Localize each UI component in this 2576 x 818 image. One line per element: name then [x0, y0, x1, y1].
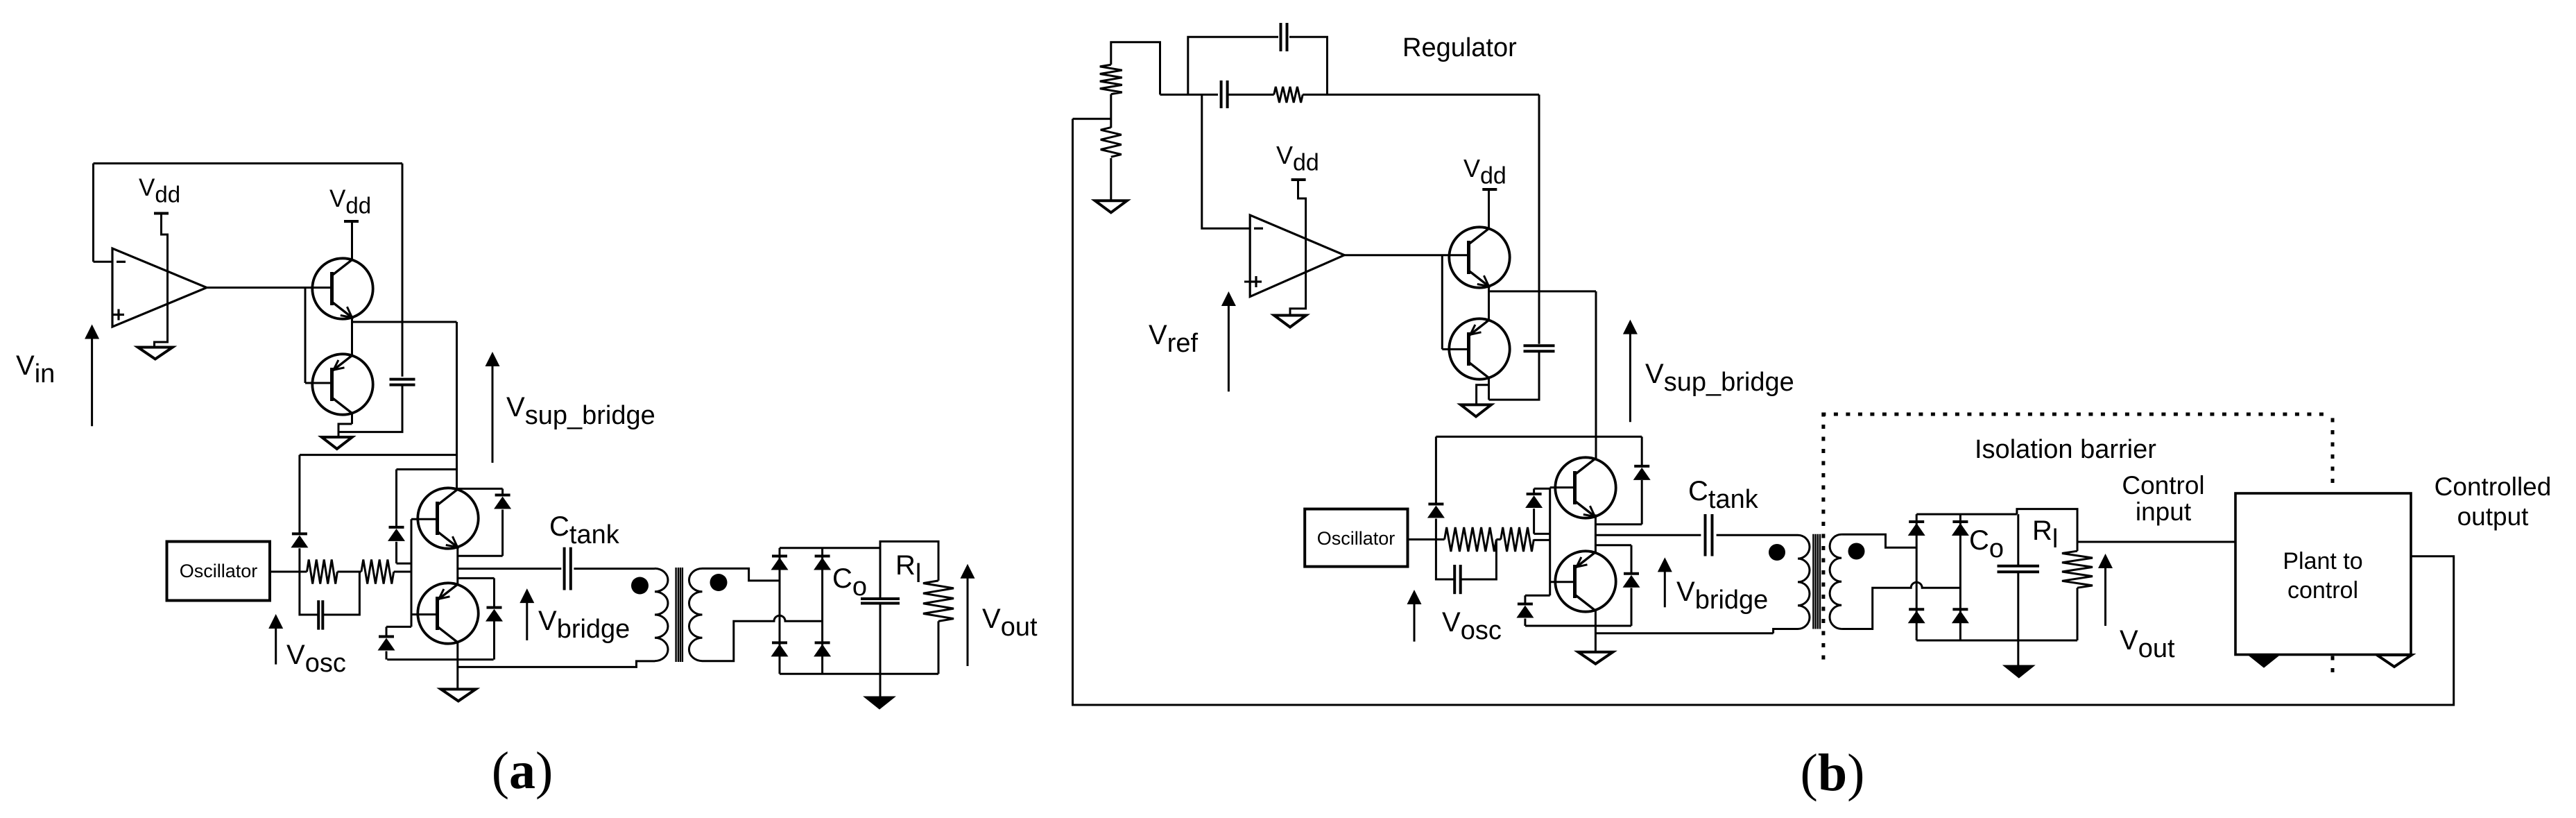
wire Q2 collector (a) [351, 414, 353, 424]
wire emitter node (b) [1595, 515, 1597, 553]
wire divider top (b) [1111, 42, 1160, 95]
wire bottom rail (b) [1525, 625, 1631, 627]
T2 primary dot (b) [1769, 544, 1785, 561]
transformer T2 secondary (b) [1830, 534, 1841, 629]
Rl box (a) [875, 541, 938, 581]
wire D12 top (b) [1525, 595, 1550, 597]
transistor Q2 (a) [312, 354, 372, 414]
wire Ctank to T2 (b) [1717, 534, 1798, 536]
transistor Q4 (a) [418, 583, 478, 643]
wire control input (b) [2077, 541, 2235, 543]
svg-text:Vdd: Vdd [329, 185, 371, 219]
transistor Q3 (a) [418, 488, 478, 548]
wire R7 out (b) [1534, 539, 1549, 541]
diode D14 (b) [1595, 544, 1631, 546]
wire divider tap (b) [1073, 118, 1111, 120]
bridge left branch (b) [1916, 514, 1918, 640]
capacitor Co (b) [1998, 565, 2040, 568]
rail V_sup_bridge (b) [1595, 291, 1597, 459]
wire R4 to ground (b) [1110, 158, 1112, 201]
wire node to rail (a) [352, 321, 457, 323]
diode D7 (a) [815, 555, 830, 558]
op-amp U2 (b) [1250, 215, 1344, 297]
diode D1 (a) [298, 455, 300, 534]
transformer T1 secondary (a) [689, 568, 702, 661]
supply stub Q5 (b) [1482, 188, 1497, 191]
wire Q1 emitter node (a) [351, 318, 353, 356]
svg-text:Isolation barrier: Isolation barrier [1975, 435, 2156, 464]
bridge top rail (b) [1916, 513, 2017, 515]
Vosc arrow (b) [1414, 599, 1416, 642]
supply stub U2 (b) [1291, 178, 1306, 181]
wire divider mid (b) [1110, 94, 1112, 128]
wire feedback top rail (a) [94, 162, 403, 164]
wire C5 bottom (b) [1489, 351, 1540, 400]
wire feedback right (a) [402, 164, 404, 377]
wire C1 bottom (a) [338, 385, 402, 432]
T1 secondary dot (a) [710, 574, 728, 591]
rail V_sup_bridge (a) [456, 322, 458, 488]
Vin arrow [91, 334, 93, 427]
resistor R3 (b) [1100, 65, 1122, 94]
transistor Q1 (a) [312, 258, 372, 318]
Vout arrow (a) [967, 574, 969, 666]
svg-text:Vref: Vref [1149, 320, 1198, 358]
capacitor C2 loop (a) [300, 572, 318, 615]
svg-text:Vin: Vin [16, 350, 55, 389]
capacitor Ctank (b) [1704, 514, 1707, 556]
wire Q2 base (a) [304, 288, 307, 384]
svg-text:Plant to: Plant to [2283, 548, 2362, 574]
svg-text:output: output [2457, 502, 2530, 531]
wire Q3 base (a) [411, 518, 438, 520]
Vref arrow [1228, 301, 1230, 391]
op-amp U1 (a) [112, 248, 207, 327]
bridge left branch (a) [779, 548, 781, 674]
diode D9 (a) [815, 641, 830, 644]
Rl box right lower (a) [938, 621, 940, 674]
wire Co to ground (a) [879, 604, 882, 697]
diode D5 (a) [457, 488, 503, 490]
diode D17 (b) [1909, 608, 1924, 611]
wire R2 out (a) [394, 571, 411, 573]
T2 secondary dot (b) [1848, 543, 1865, 560]
wire Co (a) [879, 541, 882, 598]
wire Q7 base (b) [1550, 486, 1575, 488]
ground divider (b) [1095, 201, 1127, 212]
wire Q4 base (a) [411, 613, 438, 615]
supply stub Vdd Q1 (a) [344, 220, 359, 223]
svg-text:Vbridge: Vbridge [538, 606, 630, 644]
wire node rail (b) [1489, 290, 1597, 292]
svg-text:Ctank: Ctank [549, 511, 620, 549]
bridge right branch (b) [1959, 514, 1961, 640]
capacitor C5 (b) [1524, 344, 1555, 347]
wire feedback left (a) [92, 164, 94, 262]
svg-text:Co: Co [832, 563, 867, 602]
svg-text:Control: Control [2122, 471, 2204, 500]
svg-text:input: input [2136, 497, 2192, 526]
diode D8 (a) [772, 641, 787, 644]
wire bottom left rail (a) [387, 658, 493, 661]
transformer T2 primary (b) [1798, 535, 1810, 629]
transistor Q5 (b) [1449, 227, 1509, 287]
wire oscillator out (a) [270, 571, 307, 573]
bridge top rail (a) [780, 547, 875, 549]
wire U1 output (a) [207, 287, 332, 289]
diode D10 (b) [1435, 436, 1437, 504]
wire minus input (b) [1202, 94, 1250, 228]
capacitor Ctank (a) [563, 547, 566, 590]
capacitor C6 loop (b) [1436, 540, 1454, 580]
resistor R7 (b) [1501, 527, 1534, 552]
Vbridge arrow (b) [1664, 567, 1666, 607]
svg-text:Oscillator: Oscillator [1317, 528, 1396, 549]
svg-text:Oscillator: Oscillator [180, 561, 258, 581]
oscillator box (b) [1305, 509, 1407, 567]
transistor Q7 (b) [1555, 457, 1615, 518]
Vout arrow (b) [2104, 563, 2106, 626]
resistor Rl (a) [923, 581, 954, 622]
V_sup_bridge arrow (a) [492, 361, 494, 463]
svg-text:Vout: Vout [2120, 625, 2175, 663]
wire Co (b) [2017, 514, 2019, 565]
wire D11 top (b) [1534, 488, 1550, 490]
capacitor C3 (b) [1280, 23, 1282, 51]
diode D11 (b) [1533, 488, 1535, 494]
bridge bottom rail (b) [1916, 640, 2077, 642]
wire base drive (b) [1549, 488, 1551, 596]
svg-text:Rl: Rl [2032, 515, 2058, 554]
wire oscillator out (b) [1408, 538, 1445, 540]
diode D13 (b) [1595, 523, 1642, 525]
diode D2 (a) [395, 470, 397, 527]
wire R1-R2 (a) [337, 571, 361, 573]
ground plant left (b) [2249, 655, 2280, 667]
diode D16 (b) [1952, 520, 1968, 523]
diode D4 (a) [458, 577, 495, 579]
wire RC row right (b) [1303, 94, 1539, 96]
ground Co (b) [2003, 665, 2034, 678]
feedback cap loop (b) [1188, 37, 1278, 94]
Rl box right lower (b) [2077, 588, 2079, 640]
ground U2 (b) [1274, 316, 1306, 327]
bridge right branch (a) [821, 548, 823, 674]
wire Ctank (b) [1595, 534, 1701, 536]
V_sup_bridge arrow (b) [1629, 330, 1631, 423]
svg-text:Vosc: Vosc [1442, 607, 1502, 645]
resistor R1 (a) [307, 560, 338, 584]
capacitor C1 (a) [390, 378, 415, 381]
svg-text:Vsup_bridge: Vsup_bridge [506, 392, 655, 430]
isolation barrier dotted box [1823, 414, 2333, 674]
svg-text:control: control [2287, 577, 2358, 604]
diode D12 (b) [1524, 595, 1526, 604]
Vosc arrow (a) [275, 624, 277, 665]
wire bottom right rail (a) [458, 661, 655, 667]
resistor R6 (b) [1445, 527, 1497, 552]
wire to T2 (b) [1595, 632, 1773, 634]
resistor R2 (a) [361, 560, 394, 584]
Vbridge arrow (a) [526, 598, 528, 640]
svg-text:(a): (a) [492, 742, 553, 800]
wire base drive (a) [411, 519, 413, 627]
wire U2 output (b) [1344, 254, 1469, 256]
wire T2 primary bottom (b) [1774, 629, 1798, 633]
wire R6-R7 (b) [1496, 538, 1500, 540]
transformer T2 core (b) [1812, 534, 1814, 629]
svg-text:Regulator: Regulator [1402, 33, 1517, 62]
wire Q5 emitter node (b) [1488, 287, 1490, 321]
svg-text:Vsup_bridge: Vsup_bridge [1645, 359, 1794, 397]
wire Ctank (a) [458, 568, 562, 570]
wire Co to ground (b) [2017, 572, 2019, 665]
capacitor Co (a) [861, 597, 900, 600]
svg-text:Vosc: Vosc [286, 640, 346, 678]
transformer T1 core (a) [675, 568, 676, 662]
diode D6 (a) [772, 555, 787, 558]
wire T2 secondary bottom (b) [1841, 582, 1960, 629]
ground U1 (a) [138, 348, 173, 359]
ground plant right (b) [2377, 655, 2412, 667]
wire Ctank to T1 (a) [574, 568, 655, 570]
resistor R4 (b) [1101, 128, 1122, 157]
wire Q6 collector (b) [1488, 377, 1490, 400]
wire Q8 collector (b) [1595, 611, 1597, 652]
ground jog Q6 (b) [1477, 385, 1489, 405]
wire rail to D2 (a) [397, 468, 457, 470]
T1 primary dot (a) [631, 577, 649, 595]
transformer T1 primary (a) [655, 568, 668, 661]
svg-text:Co: Co [1969, 525, 2004, 563]
diode D15 (b) [1909, 520, 1924, 523]
diode D18 (b) [1952, 608, 1968, 611]
ground Co (a) [864, 697, 895, 709]
ground Q8 (b) [1578, 652, 1613, 664]
wire Q4 collector (a) [456, 642, 458, 690]
wire Q3 emitter node (a) [456, 547, 458, 583]
wire to cap C5 (b) [1538, 94, 1540, 343]
wire Q8 base (b) [1550, 581, 1575, 583]
svg-text:Vdd: Vdd [1463, 154, 1506, 189]
wire D3 top (a) [386, 626, 411, 628]
ground jog Q2 (a) [338, 424, 352, 437]
resistor Rl (b) [2062, 551, 2093, 588]
svg-text:Vbridge: Vbridge [1676, 577, 1768, 615]
wire C4 to R5 (b) [1228, 94, 1274, 96]
wire Q6 base (b) [1441, 255, 1443, 350]
resistor R5 (b) [1274, 87, 1303, 103]
diode D3 (a) [386, 627, 388, 636]
wire T1 secondary bottom (a) [703, 615, 823, 661]
svg-text:(b): (b) [1801, 744, 1865, 802]
bridge bottom rail (a) [780, 673, 938, 675]
svg-text:Vout: Vout [982, 604, 1038, 642]
svg-text:Ctank: Ctank [1688, 476, 1759, 514]
wire T1 secondary top (a) [703, 568, 780, 581]
capacitor C4 (b) [1220, 80, 1223, 108]
svg-text:Vdd: Vdd [139, 174, 180, 207]
transistor Q8 (b) [1555, 551, 1615, 611]
svg-text:Vdd: Vdd [1276, 141, 1319, 176]
ground Q4 (a) [441, 689, 476, 701]
svg-text:Controlled: Controlled [2435, 472, 2552, 501]
Rl box (b) [2017, 509, 2077, 552]
oscillator box (a) [167, 542, 271, 601]
wire rail to D1 (a) [300, 454, 457, 456]
svg-text:Rl: Rl [895, 550, 921, 588]
wire drive top (b) [1436, 436, 1642, 438]
wire RC row left (b) [1160, 94, 1219, 96]
plant box (b) [2235, 493, 2411, 655]
ground Q2 (a) [322, 437, 352, 449]
transistor Q6 (b) [1449, 318, 1509, 379]
wire T2 secondary top (b) [1841, 534, 1916, 547]
wire controlled output (b) [1073, 119, 2454, 705]
supply stub Vdd U1 (a) [154, 212, 169, 215]
ground Q6 (b) [1461, 404, 1491, 416]
